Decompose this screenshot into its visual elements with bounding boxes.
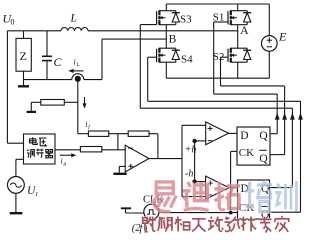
arrow iL (points left) — [72, 70, 84, 72]
op-amp U1 — [125, 145, 149, 172]
node clock junction (dot) — [229, 211, 233, 215]
svg-text:Q: Q — [259, 153, 268, 165]
svg-text:Z: Z — [20, 49, 27, 63]
wire clock bus — [159, 212, 238, 214]
wire hop over sensor node — [72, 74, 84, 80]
voltage regulator box — [24, 134, 56, 164]
wire threshold link — [194, 141, 196, 182]
wire S3 drain stub — [165, 4, 167, 10]
arrow ig (points right) — [60, 154, 73, 156]
ground (op-amp) — [113, 173, 126, 175]
capacitor C — [42, 55, 52, 57]
source Ur — [8, 177, 25, 194]
wire S2 gate route — [221, 56, 229, 58]
wire tank bottom rail — [24, 79, 72, 81]
impedance Z branch wires — [23, 31, 25, 39]
node threshold +h (dot) — [192, 139, 196, 143]
wire FF2 Q out — [270, 187, 293, 189]
flip-flop FF1 — [237, 127, 270, 165]
source CLK — [144, 204, 159, 219]
ground (burden) — [27, 111, 36, 113]
arrow gate drive S4 (up) — [298, 113, 303, 120]
wire summing node drop — [117, 134, 119, 150]
svg-text:Q: Q — [259, 130, 268, 142]
wire sensed current drop — [77, 79, 79, 134]
wire Ur to ground — [15, 193, 17, 212]
wire burden to ground — [31, 101, 41, 103]
wire Ur to regulator — [15, 159, 17, 176]
wire FF1 Q out — [270, 133, 277, 135]
wire right leg middle — [237, 25, 239, 48]
wire -h to comparator — [195, 181, 206, 183]
source E wires — [268, 4, 270, 36]
svg-text:0: 0 — [11, 18, 15, 27]
svg-text:S3: S3 — [180, 14, 192, 26]
resistor feedback Rf — [128, 131, 149, 136]
svg-text:i: i — [74, 58, 76, 67]
svg-text:C: C — [54, 55, 63, 69]
wire S2 source to bottom rail — [237, 63, 239, 79]
wire S3 gate route — [140, 24, 156, 26]
ground (Ur) — [10, 212, 23, 214]
wire top rail U0 to node A — [7, 30, 61, 32]
wire CLK left lead — [126, 212, 144, 214]
svg-text:CK: CK — [239, 147, 254, 159]
wire left feedback drop — [6, 31, 8, 143]
wire regulator summing input — [102, 149, 118, 151]
label dianya tiaojieqi (drawn glyphs) — [27, 137, 53, 158]
resistor burden — [41, 100, 65, 106]
wire S4 gate route — [148, 56, 157, 58]
wire S1 gate route — [214, 21, 228, 23]
watermark slogan line — [143, 217, 156, 232]
capacitor C branch wires — [46, 31, 48, 57]
svg-text:i: i — [61, 157, 63, 166]
wire +h to comparator — [195, 140, 206, 142]
wire FF1 Qbar out — [270, 154, 285, 156]
wire B-leg riser — [101, 39, 103, 80]
source E — [262, 36, 278, 52]
wire regulator output — [55, 149, 80, 151]
svg-text:B: B — [169, 33, 177, 45]
ground (tank) — [23, 80, 25, 86]
transistor S1 — [228, 10, 251, 25]
wire FF2 Qbar out — [270, 211, 301, 213]
wire left leg middle — [165, 25, 167, 48]
wire Rin to summing node — [109, 133, 129, 135]
node current-sensor junction (dot) — [75, 76, 81, 82]
transistor S2 — [228, 48, 251, 63]
flip-flop FF2 — [238, 180, 270, 219]
wire to burden resistor — [64, 101, 78, 103]
wire clock to FF1 CK — [230, 151, 232, 212]
wire sensor to input resistor — [78, 133, 89, 135]
svg-text:g: g — [64, 161, 67, 167]
wire inverting input — [118, 149, 125, 151]
impedance Z — [16, 38, 31, 71]
resistor Rg — [80, 147, 101, 152]
svg-text:i: i — [85, 120, 87, 129]
svg-text:-h: -h — [185, 168, 193, 179]
wire threshold bus — [181, 125, 183, 196]
arrow if (points down) — [84, 97, 86, 105]
wire comparator2 output to D — [229, 187, 237, 189]
wire S4 source to bottom rail — [165, 63, 167, 79]
svg-text:D: D — [240, 130, 248, 142]
wire bridge bottom rail — [166, 77, 269, 79]
wire op-amp output — [149, 158, 182, 160]
wire comparator1 output to D — [229, 132, 238, 134]
inductor L — [61, 27, 88, 30]
transistor S3 — [157, 10, 180, 25]
wire non-inverting to ground — [119, 165, 125, 167]
comparator lower — [206, 176, 230, 199]
svg-text:E: E — [278, 29, 287, 43]
node threshold -h (dot) — [192, 179, 196, 183]
svg-text:S4: S4 — [181, 54, 193, 66]
wire bridge top rail — [166, 3, 269, 5]
resistor input Rin — [88, 131, 108, 136]
wire S1 drain stub — [237, 4, 239, 10]
arrow gate drive S2 (up) — [282, 113, 287, 120]
arrow gate drive S3 (up) — [290, 113, 295, 120]
ground (CLK) — [125, 209, 127, 213]
svg-text:L: L — [70, 13, 77, 25]
arrow gate drive S1 (up) — [275, 113, 280, 120]
transistor S4 — [157, 48, 180, 63]
wire Rf to output — [149, 133, 158, 135]
comparator upper — [206, 122, 229, 145]
watermark big characters — [153, 182, 176, 212]
svg-text:A: A — [240, 25, 249, 37]
